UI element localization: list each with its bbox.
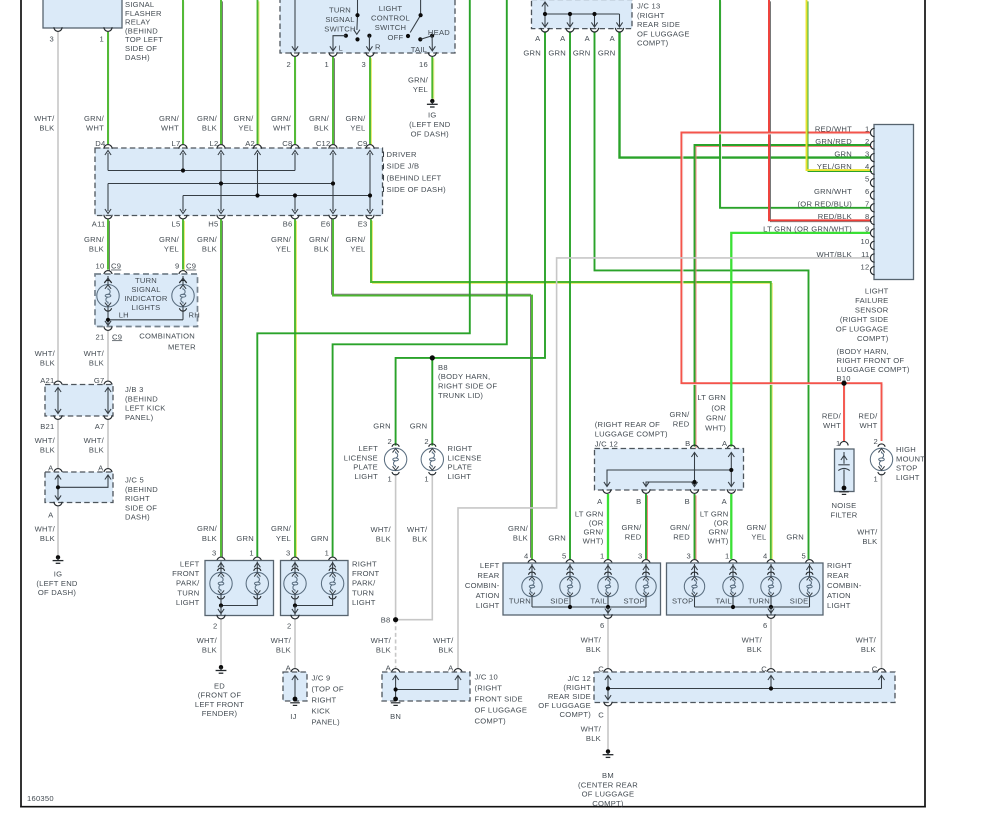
switch pin 2 xyxy=(291,52,299,56)
relay pin 3 xyxy=(54,27,62,31)
svg-text:1: 1 xyxy=(325,60,329,69)
wire GRN/YEL from top to J/B pin A2 xyxy=(258,1,260,145)
svg-text:BLK: BLK xyxy=(438,646,453,655)
svg-text:BN: BN xyxy=(390,712,401,721)
svg-text:REAR SIDE: REAR SIDE xyxy=(548,692,591,701)
J/C 5 junction box xyxy=(45,472,113,503)
svg-text:GRN/: GRN/ xyxy=(709,528,730,537)
svg-text:GRN/: GRN/ xyxy=(346,114,367,123)
svg-text:A: A xyxy=(610,34,616,43)
svg-text:GRN: GRN xyxy=(573,49,591,58)
ED ground xyxy=(216,665,227,673)
wire from contact R to switch pin 3 xyxy=(368,36,370,50)
svg-text:FILTER: FILTER xyxy=(830,511,857,520)
svg-text:C9: C9 xyxy=(112,332,122,341)
J/B 3 junction box xyxy=(45,385,113,417)
svg-text:LIGHT: LIGHT xyxy=(176,598,200,607)
svg-text:3: 3 xyxy=(212,548,216,557)
svg-text:RIGHT: RIGHT xyxy=(352,559,377,568)
svg-text:RIGHT: RIGHT xyxy=(448,444,473,453)
wire GRN/BLK J/B pin H5 to left front park/turn pin3 xyxy=(222,221,224,558)
J/B bottom pin connectors xyxy=(104,215,112,219)
svg-text:LT GRN (OR GRN/WHT): LT GRN (OR GRN/WHT) xyxy=(763,225,852,234)
svg-text:(RIGHT SIDE: (RIGHT SIDE xyxy=(840,315,889,324)
svg-text:6: 6 xyxy=(600,621,604,630)
svg-text:COMPT): COMPT) xyxy=(592,799,624,808)
svg-text:2: 2 xyxy=(388,437,392,446)
node B8 body harness xyxy=(430,355,435,360)
svg-text:A21: A21 xyxy=(40,376,54,385)
svg-text:B21: B21 xyxy=(40,422,54,431)
right rear pin 6 xyxy=(767,614,775,618)
sensor pin 6 xyxy=(870,191,874,199)
svg-text:16: 16 xyxy=(419,60,428,69)
svg-text:12: 12 xyxy=(861,262,870,271)
svg-text:LICENSE: LICENSE xyxy=(448,453,482,462)
wire GRN/YEL J/B pin L5 to meter pin9 xyxy=(184,221,186,271)
wire GRN/WHT from top to J/B pin L7 xyxy=(184,1,186,145)
turn signal indicator lights box xyxy=(95,274,198,327)
svg-text:HIGH: HIGH xyxy=(896,445,916,454)
svg-text:10: 10 xyxy=(96,262,105,271)
svg-text:GRN: GRN xyxy=(598,49,616,58)
J/C 12 long box xyxy=(594,672,895,703)
svg-text:WHT: WHT xyxy=(86,123,104,132)
svg-text:CONTROL: CONTROL xyxy=(371,14,410,23)
svg-text:(LEFT END: (LEFT END xyxy=(36,579,78,588)
svg-text:GRN/WHT: GRN/WHT xyxy=(814,187,852,196)
IG ground (switch pin16) xyxy=(427,99,438,107)
svg-text:(CENTER REAR: (CENTER REAR xyxy=(578,780,638,789)
svg-text:1: 1 xyxy=(100,35,104,44)
svg-text:RIGHT: RIGHT xyxy=(827,561,852,570)
svg-text:LIGHT: LIGHT xyxy=(354,472,378,481)
svg-text:COMPT): COMPT) xyxy=(857,334,889,343)
svg-text:LEFT: LEFT xyxy=(480,561,500,570)
svg-text:ATION: ATION xyxy=(827,591,851,600)
svg-text:TAIL: TAIL xyxy=(591,596,607,605)
svg-text:GRN/: GRN/ xyxy=(508,524,529,533)
svg-text:LIGHT: LIGHT xyxy=(476,601,500,610)
svg-text:A: A xyxy=(98,463,104,472)
svg-text:RED: RED xyxy=(673,420,690,429)
svg-text:TAIL: TAIL xyxy=(411,45,427,54)
svg-text:(BODY HARN,: (BODY HARN, xyxy=(837,347,889,356)
svg-text:BLK: BLK xyxy=(89,359,104,368)
svg-text:BLK: BLK xyxy=(276,646,291,655)
svg-text:TRUNK LID): TRUNK LID) xyxy=(438,391,483,400)
svg-text:GRN/: GRN/ xyxy=(346,235,367,244)
meter pin 21 C9 xyxy=(104,326,112,330)
svg-text:PLATE: PLATE xyxy=(448,463,473,472)
svg-text:WHT: WHT xyxy=(823,421,841,430)
wire WHT/BLK J/C12 bottom pinC to BM ground xyxy=(607,706,609,749)
svg-text:9: 9 xyxy=(865,225,869,234)
svg-text:10: 10 xyxy=(861,237,870,246)
svg-text:3: 3 xyxy=(687,552,691,561)
svg-text:A: A xyxy=(585,34,591,43)
svg-text:GRN/: GRN/ xyxy=(670,523,691,532)
wire WHT/BLK J/C5 pinA to IG ground xyxy=(57,506,59,555)
svg-text:GRN/RED: GRN/RED xyxy=(815,137,852,146)
wire WHT/BLK left rear combination pin6 to J/C12 pinC xyxy=(607,619,609,668)
svg-text:3: 3 xyxy=(50,35,54,44)
wire GRN node B8 branch to right license plate light pin2 xyxy=(431,358,433,446)
J/C13 pin A 2 xyxy=(566,28,574,32)
svg-text:PARK/: PARK/ xyxy=(352,579,376,588)
wire WHT/BLK dashed node B8 to J/C10 left pinA xyxy=(395,620,397,668)
svg-text:1: 1 xyxy=(249,548,253,557)
svg-text:LIGHT: LIGHT xyxy=(448,472,472,481)
svg-text:GRN: GRN xyxy=(311,534,329,543)
svg-text:C12: C12 xyxy=(316,139,331,148)
J/B3 pin A7 xyxy=(104,415,112,419)
wire GRN/BLK from top to J/B pin L2 xyxy=(222,1,224,145)
svg-text:2: 2 xyxy=(213,622,217,631)
wire GRN/YEL J/B pin B6 to right front park/turn pin3 xyxy=(296,221,298,558)
svg-text:GRN/: GRN/ xyxy=(271,114,292,123)
svg-text:L5: L5 xyxy=(172,219,181,228)
svg-text:(OR: (OR xyxy=(711,403,726,412)
svg-text:GRN/: GRN/ xyxy=(309,235,330,244)
svg-text:5: 5 xyxy=(562,552,566,561)
noise filter box xyxy=(835,449,855,492)
svg-text:GRN: GRN xyxy=(523,49,541,58)
sensor pin 8 xyxy=(870,216,874,224)
svg-text:BLK: BLK xyxy=(202,646,217,655)
wire RED/WHT node B10 branch to noise filter pin1 xyxy=(845,385,847,443)
sensor pin 9 xyxy=(870,229,874,237)
svg-text:2: 2 xyxy=(424,437,428,446)
svg-text:3: 3 xyxy=(638,552,642,561)
svg-text:RED/: RED/ xyxy=(858,411,878,420)
svg-text:1: 1 xyxy=(725,552,729,561)
J/B top pin connectors xyxy=(104,145,112,149)
svg-text:NOISE: NOISE xyxy=(832,501,857,510)
svg-text:(OR: (OR xyxy=(589,519,604,528)
svg-text:L: L xyxy=(339,44,343,53)
turn signal switch / light control switch box xyxy=(280,0,455,53)
svg-text:C9: C9 xyxy=(186,262,196,271)
svg-text:(LEFT END: (LEFT END xyxy=(409,120,451,129)
light control switch contact HEAD xyxy=(430,34,434,38)
svg-text:SWITCH: SWITCH xyxy=(375,23,406,32)
svg-text:YEL/GRN: YEL/GRN xyxy=(817,162,852,171)
svg-text:FENDER): FENDER) xyxy=(202,709,238,718)
svg-text:A11: A11 xyxy=(92,219,106,228)
svg-text:A: A xyxy=(722,497,728,506)
svg-text:BLK: BLK xyxy=(747,645,762,654)
svg-text:BLK: BLK xyxy=(89,244,104,253)
svg-text:A: A xyxy=(48,511,54,520)
svg-text:DASH): DASH) xyxy=(125,53,150,62)
sensor pin 11 xyxy=(870,254,874,262)
svg-text:INDICATOR: INDICATOR xyxy=(124,294,168,303)
svg-text:WHT/: WHT/ xyxy=(581,725,602,734)
svg-text:3: 3 xyxy=(286,548,290,557)
svg-text:GRN/: GRN/ xyxy=(271,524,292,533)
svg-text:RIGHT: RIGHT xyxy=(125,494,150,503)
svg-text:(RIGHT: (RIGHT xyxy=(563,683,591,692)
svg-text:TURN: TURN xyxy=(177,588,199,597)
wire GRN/RED J/C12 pinB through to right rear combination pin3 xyxy=(695,495,697,560)
sensor pin 12 xyxy=(870,266,874,274)
turn signal switch contact L xyxy=(344,34,348,38)
left front bulbs xyxy=(210,568,232,599)
svg-text:9: 9 xyxy=(175,262,179,271)
wire GRN J/C13 pinA4 to light failure sensor pin3 xyxy=(620,33,871,158)
svg-text:5: 5 xyxy=(865,175,869,184)
svg-text:IJ: IJ xyxy=(290,712,296,721)
svg-text:LEFT FRONT: LEFT FRONT xyxy=(195,700,244,709)
svg-text:1: 1 xyxy=(325,548,329,557)
svg-text:GRN/: GRN/ xyxy=(84,114,105,123)
svg-text:DRIVER: DRIVER xyxy=(387,150,417,159)
svg-text:3: 3 xyxy=(865,149,869,158)
svg-text:J/C 12: J/C 12 xyxy=(595,440,618,449)
svg-text:WHT/: WHT/ xyxy=(84,349,105,358)
svg-text:FRONT: FRONT xyxy=(172,569,200,578)
svg-text:STOP: STOP xyxy=(672,596,694,605)
wire WHT/BLK J/B3 pin B21 to J/C5 pinA xyxy=(57,420,59,468)
svg-text:4: 4 xyxy=(865,162,869,171)
svg-text:(BODY HARN,: (BODY HARN, xyxy=(438,372,490,381)
svg-text:RIGHT SIDE OF: RIGHT SIDE OF xyxy=(438,382,497,391)
switch pin 3 xyxy=(366,52,374,56)
svg-text:GRN/: GRN/ xyxy=(747,523,768,532)
wire GRN/BLK switch pin1 to J/B pin C12 xyxy=(334,58,336,145)
right rear bulbs STOP TAIL TURN SIDE xyxy=(684,572,704,597)
wire TAIL contact to HEAD contact to switch pin 16 xyxy=(420,36,432,50)
svg-text:GRN/: GRN/ xyxy=(84,235,105,244)
svg-text:YEL: YEL xyxy=(164,244,179,253)
light failure sensor box xyxy=(874,125,914,280)
wire GRN/BLK J/B pin A11 to meter pin10 xyxy=(109,221,111,271)
svg-text:E6: E6 xyxy=(321,219,331,228)
svg-text:WHT: WHT xyxy=(161,123,179,132)
svg-text:OF LUGGAGE: OF LUGGAGE xyxy=(538,701,591,710)
svg-text:4: 4 xyxy=(763,552,767,561)
right front pin 2 xyxy=(291,615,299,619)
svg-text:BLK: BLK xyxy=(202,534,217,543)
svg-text:ATION: ATION xyxy=(476,591,500,600)
svg-text:GRN/: GRN/ xyxy=(670,410,691,419)
svg-text:HEAD: HEAD xyxy=(428,28,450,37)
svg-text:GRN/: GRN/ xyxy=(706,413,727,422)
LH indicator bulb xyxy=(107,276,109,320)
svg-text:WHT): WHT) xyxy=(583,537,604,546)
svg-text:SENSOR: SENSOR xyxy=(855,305,889,314)
svg-text:LIGHT: LIGHT xyxy=(865,286,889,295)
svg-text:1: 1 xyxy=(424,474,428,483)
svg-text:SIGNAL: SIGNAL xyxy=(131,285,160,294)
svg-text:(RIGHT REAR OF: (RIGHT REAR OF xyxy=(595,420,660,429)
svg-text:BM: BM xyxy=(602,771,614,780)
svg-text:2: 2 xyxy=(287,60,291,69)
sensor pin 4 xyxy=(870,166,874,174)
svg-text:WHT/: WHT/ xyxy=(370,525,391,534)
svg-text:PLATE: PLATE xyxy=(353,463,378,472)
svg-text:BLK: BLK xyxy=(202,244,217,253)
svg-text:REAR: REAR xyxy=(477,571,499,580)
svg-text:GRN: GRN xyxy=(548,533,566,542)
svg-text:J/C 12: J/C 12 xyxy=(568,674,591,683)
svg-text:2: 2 xyxy=(865,137,869,146)
svg-text:BLK: BLK xyxy=(376,535,391,544)
svg-text:COMBIN-: COMBIN- xyxy=(827,581,862,590)
svg-text:OF LUGGAGE: OF LUGGAGE xyxy=(836,324,889,333)
svg-text:IG: IG xyxy=(54,570,63,579)
svg-text:SIDE OF DASH): SIDE OF DASH) xyxy=(387,185,447,194)
svg-text:TURN: TURN xyxy=(329,6,351,15)
J/B internal arrows xyxy=(105,150,111,155)
wire GRN/YEL J/B pin E3 to right rear combination pin4 xyxy=(373,221,773,561)
svg-text:GRN/: GRN/ xyxy=(622,523,643,532)
svg-text:COMBINATION: COMBINATION xyxy=(139,332,195,341)
svg-text:LH: LH xyxy=(119,310,129,319)
svg-text:BLK: BLK xyxy=(40,359,55,368)
svg-text:LUGGAGE COMPT): LUGGAGE COMPT) xyxy=(837,365,910,374)
svg-text:GRN: GRN xyxy=(548,49,566,58)
svg-text:WHT/: WHT/ xyxy=(35,436,56,445)
turn signal flasher relay xyxy=(43,0,122,28)
svg-text:WHT/BLK: WHT/BLK xyxy=(816,250,852,259)
J/C 13 junction box xyxy=(532,0,633,29)
sensor pin 5 xyxy=(870,179,874,187)
svg-text:YEL: YEL xyxy=(751,533,766,542)
svg-text:BLK: BLK xyxy=(412,535,427,544)
svg-text:1: 1 xyxy=(388,474,392,483)
svg-text:LT GRN: LT GRN xyxy=(700,510,729,519)
svg-text:BLK: BLK xyxy=(586,645,601,654)
J/B internal wiring xyxy=(108,153,370,211)
wire LT GRN J/C12 lower pinA to left rear combination pin1 xyxy=(607,494,609,559)
svg-text:C9: C9 xyxy=(111,262,121,271)
wire WHT/BLK right front park/turn pin2 to J/C9 pinA xyxy=(294,619,296,668)
svg-text:BLK: BLK xyxy=(376,646,391,655)
svg-text:GRN/: GRN/ xyxy=(234,114,255,123)
svg-text:SIGNAL: SIGNAL xyxy=(325,15,354,24)
wire GRN/WHT (OR RED/BLU) from top to light failure sensor pin7 xyxy=(722,1,873,209)
svg-text:STOP: STOP xyxy=(623,596,645,605)
svg-text:BLK: BLK xyxy=(314,123,329,132)
wire into switch pin 2 from above xyxy=(294,0,296,50)
svg-text:BLK: BLK xyxy=(861,645,876,654)
turn signal switch common feed xyxy=(356,0,359,30)
svg-text:OF DASH): OF DASH) xyxy=(411,129,450,138)
wire GRN from top to right front park/turn pin1 xyxy=(333,0,507,557)
sensor pin 10 xyxy=(870,241,874,249)
svg-text:TURN: TURN xyxy=(748,596,770,605)
svg-text:WHT: WHT xyxy=(273,123,291,132)
svg-text:SIDE OF: SIDE OF xyxy=(125,503,157,512)
svg-text:2: 2 xyxy=(874,437,878,446)
svg-text:LT GRN: LT GRN xyxy=(575,510,604,519)
svg-text:TURN: TURN xyxy=(135,276,157,285)
svg-text:TAIL: TAIL xyxy=(716,596,732,605)
J/C12 upper bottom pin A 2 xyxy=(727,489,735,493)
svg-text:RELAY: RELAY xyxy=(125,18,151,27)
page frame border xyxy=(20,0,22,808)
svg-text:SIDE: SIDE xyxy=(790,596,809,605)
svg-text:YEL: YEL xyxy=(350,244,365,253)
J/C12 upper bottom pin B 2 xyxy=(690,489,698,493)
BM ground xyxy=(603,749,614,757)
svg-text:BLK: BLK xyxy=(89,445,104,454)
svg-text:1: 1 xyxy=(600,552,604,561)
switch pin 16 xyxy=(428,52,436,56)
svg-text:FAILURE: FAILURE xyxy=(855,296,888,305)
svg-text:(BEHIND LEFT: (BEHIND LEFT xyxy=(387,173,442,182)
svg-text:BLK: BLK xyxy=(314,244,329,253)
svg-text:E3: E3 xyxy=(358,219,368,228)
svg-text:A: A xyxy=(560,34,566,43)
svg-text:H5: H5 xyxy=(208,219,218,228)
svg-text:B10: B10 xyxy=(837,374,851,383)
svg-text:A: A xyxy=(448,664,454,673)
svg-text:LIGHTS: LIGHTS xyxy=(132,303,161,312)
svg-text:OF LUGGAGE: OF LUGGAGE xyxy=(475,706,528,715)
svg-text:RH: RH xyxy=(189,310,200,319)
svg-text:PANEL): PANEL) xyxy=(125,413,154,422)
svg-text:(RIGHT: (RIGHT xyxy=(475,684,503,693)
wire LT GRN J/C12 pinA through to right rear combination pin1 xyxy=(730,494,732,559)
sensor pin 1 xyxy=(870,128,874,136)
svg-text:(RIGHT: (RIGHT xyxy=(637,11,665,20)
driver side J/B box xyxy=(95,148,383,216)
left front pin 2 xyxy=(217,615,225,619)
wire from contact L to switch pin 1 xyxy=(333,36,346,50)
svg-text:COMPT): COMPT) xyxy=(637,39,669,48)
relay pin 1 xyxy=(104,27,112,31)
J/B3 pin B21 xyxy=(54,415,62,419)
sensor pin 3 xyxy=(870,153,874,161)
svg-text:SWITCH: SWITCH xyxy=(324,25,355,34)
svg-text:WHT/: WHT/ xyxy=(857,527,878,536)
svg-text:OF LUGGAGE: OF LUGGAGE xyxy=(582,790,635,799)
svg-text:RED: RED xyxy=(673,533,690,542)
J/C13 pin A 4 xyxy=(615,28,623,32)
svg-text:WHT/: WHT/ xyxy=(271,636,292,645)
high mount stop light bulb xyxy=(870,444,892,475)
svg-text:A: A xyxy=(722,439,728,448)
wire YEL/GRN from top to light failure sensor pin4 xyxy=(808,1,872,171)
J/C12 upper bottom pin A xyxy=(603,489,611,493)
svg-text:RED: RED xyxy=(625,533,642,542)
wire GRN/BLK J/B pin E6 to left rear combination pin4 xyxy=(332,218,531,558)
svg-text:A: A xyxy=(535,34,541,43)
svg-text:RED/: RED/ xyxy=(822,411,842,420)
svg-text:WHT/: WHT/ xyxy=(34,114,55,123)
svg-text:LIGHT: LIGHT xyxy=(352,598,376,607)
svg-text:KICK: KICK xyxy=(312,707,331,716)
J/C 12 upper box xyxy=(595,449,744,491)
svg-text:7: 7 xyxy=(865,200,869,209)
svg-text:TURN: TURN xyxy=(509,596,531,605)
svg-text:A: A xyxy=(48,463,54,472)
svg-text:GRN: GRN xyxy=(373,422,391,431)
svg-text:FRONT SIDE: FRONT SIDE xyxy=(475,695,523,704)
J/C13 pin A 3 xyxy=(590,28,598,32)
svg-text:6: 6 xyxy=(865,187,869,196)
J/C13 internal bus xyxy=(545,3,620,27)
svg-text:6: 6 xyxy=(763,621,767,630)
svg-text:PARK/: PARK/ xyxy=(176,579,200,588)
wire GRN from top to left front park/turn pin1 xyxy=(257,0,470,557)
svg-text:160350: 160350 xyxy=(27,794,54,803)
svg-text:GRN/: GRN/ xyxy=(309,114,330,123)
svg-text:GRN: GRN xyxy=(410,422,428,431)
